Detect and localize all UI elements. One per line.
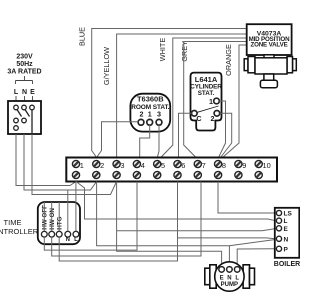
junction box terminal strip bbox=[66, 158, 277, 182]
junction terminal 10 bbox=[255, 160, 262, 167]
junction terminal 4 bbox=[133, 160, 140, 167]
wire room stat 1 to terminal 4 bbox=[140, 125, 150, 157]
svg-text:T6360B: T6360B bbox=[137, 95, 164, 104]
wire timer N to neutral bus bbox=[67, 190, 69, 202]
svg-text:230V: 230V bbox=[16, 54, 33, 61]
wire pump L to boiler P bbox=[237, 249, 275, 267]
wire timer HW OFF to terminal 4 bbox=[44, 182, 137, 251]
svg-text:ZONE VALVE: ZONE VALVE bbox=[250, 42, 287, 49]
wire earth bus to boiler E bbox=[117, 229, 276, 231]
svg-text:G/YELLOW: G/YELLOW bbox=[102, 47, 111, 85]
svg-text:5: 5 bbox=[161, 161, 165, 170]
svg-text:1: 1 bbox=[209, 97, 213, 106]
svg-text:PUMP: PUMP bbox=[221, 282, 238, 288]
supply rating label bbox=[7, 54, 41, 76]
svg-text:L: L bbox=[14, 89, 19, 96]
wire timer HW ON to terminal 7 bbox=[52, 182, 201, 257]
wire grey valve to terminal 7 bbox=[184, 42, 247, 158]
boiler terminal labels bbox=[284, 211, 293, 254]
wire terminal 8 to boiler LS bbox=[218, 182, 275, 214]
svg-text:LS: LS bbox=[284, 211, 293, 218]
zone valve label box V4073A bbox=[247, 24, 292, 55]
svg-text:TIME: TIME bbox=[4, 218, 22, 227]
wire cyl stat C to terminal 6 bbox=[179, 113, 192, 157]
svg-text:4: 4 bbox=[141, 161, 145, 170]
svg-text:N: N bbox=[22, 89, 27, 96]
boiler terminals LS L E N P bbox=[276, 210, 281, 251]
svg-text:7: 7 bbox=[202, 161, 206, 170]
wire orange valve to terminal 8 bbox=[223, 45, 247, 158]
svg-text:8: 8 bbox=[222, 161, 226, 170]
svg-text:E: E bbox=[30, 89, 35, 96]
junction terminal 9 bbox=[235, 160, 242, 167]
time controller terminals bbox=[41, 231, 78, 237]
svg-text:3: 3 bbox=[157, 110, 161, 119]
wire terminal 2 neutral to pump N bbox=[97, 182, 230, 267]
pump body and unions bbox=[205, 262, 255, 291]
time controller lead stubs bbox=[44, 202, 76, 231]
wire cyl stat 1 to terminal 8 bbox=[219, 101, 226, 158]
svg-text:N: N bbox=[66, 237, 70, 243]
time controller terminal labels bbox=[42, 205, 64, 230]
supply L N E labels bbox=[14, 89, 35, 96]
svg-text:E: E bbox=[220, 276, 224, 282]
svg-text:L: L bbox=[74, 237, 78, 243]
svg-text:BLUE: BLUE bbox=[78, 27, 87, 46]
supply isolator box bbox=[8, 101, 41, 134]
wire supply L to terminal 1 bbox=[16, 134, 76, 186]
boiler box bbox=[275, 208, 300, 258]
pump labels bbox=[220, 276, 240, 289]
svg-text:L641A: L641A bbox=[195, 75, 218, 84]
svg-text:N: N bbox=[227, 276, 231, 282]
junction terminal 8 bbox=[215, 160, 222, 167]
wire cyl stat 2 to terminal 8 bbox=[220, 113, 232, 157]
junction terminal 1 bbox=[72, 160, 79, 167]
time controller box bbox=[38, 202, 80, 244]
svg-text:ORANGE: ORANGE bbox=[224, 44, 233, 76]
cylinder stat L641A bbox=[191, 73, 222, 131]
svg-text:WHITE: WHITE bbox=[158, 38, 167, 62]
junction terminal 2 bbox=[93, 160, 100, 167]
svg-text:L: L bbox=[284, 218, 288, 225]
room stat T6360B bbox=[130, 94, 170, 132]
svg-text:50Hz: 50Hz bbox=[16, 61, 33, 68]
wire white valve to terminal 5 bbox=[161, 38, 247, 158]
svg-text:2: 2 bbox=[100, 161, 104, 170]
supply terminal ticks bbox=[16, 96, 33, 101]
svg-text:P: P bbox=[284, 246, 289, 253]
wire timer L to terminal 1 bbox=[75, 182, 77, 203]
wire supply N to terminal 2 bbox=[24, 134, 97, 190]
junction terminal 5 bbox=[154, 160, 161, 167]
svg-text:1: 1 bbox=[80, 161, 84, 170]
svg-text:10: 10 bbox=[263, 161, 271, 170]
pump terminals E N L bbox=[219, 267, 240, 273]
svg-text:HW ON: HW ON bbox=[49, 208, 56, 230]
svg-text:N: N bbox=[284, 236, 289, 243]
svg-text:9: 9 bbox=[242, 161, 246, 170]
svg-text:GREY: GREY bbox=[180, 41, 189, 62]
svg-text:HW OFF: HW OFF bbox=[42, 205, 49, 230]
svg-text:CONTROLLER: CONTROLLER bbox=[0, 227, 39, 236]
wire terminal 3 earth to pump E bbox=[117, 182, 222, 267]
wire blue valve to terminal 2 bbox=[92, 29, 247, 158]
wire neutral bus to boiler N bbox=[229, 240, 275, 246]
zone valve body bbox=[244, 55, 296, 88]
svg-text:2: 2 bbox=[140, 110, 144, 119]
wire supply E to terminal 3 bbox=[32, 134, 117, 195]
svg-text:1: 1 bbox=[148, 110, 152, 119]
wire g/yellow valve to terminal 3 bbox=[117, 34, 247, 158]
junction terminal 7 bbox=[194, 160, 201, 167]
svg-text:HTG: HTG bbox=[57, 216, 64, 229]
svg-text:L: L bbox=[235, 276, 239, 282]
time controller label bbox=[0, 218, 39, 236]
wire room stat feed from terminal 2 bbox=[97, 122, 139, 158]
svg-text:6: 6 bbox=[181, 161, 185, 170]
svg-text:3: 3 bbox=[120, 161, 124, 170]
svg-text:E: E bbox=[284, 226, 289, 233]
svg-text:BOILER: BOILER bbox=[274, 261, 300, 268]
wire terminal 1 live to boiler L bbox=[76, 182, 275, 221]
wire terminal 6 to boiler N bbox=[178, 237, 276, 240]
room stat terminals 2 1 3 bbox=[138, 119, 162, 125]
supply switch contacts bbox=[14, 105, 35, 134]
wire room stat 3 to terminal 5 bbox=[157, 125, 159, 157]
cylinder stat terminals and switch arm bbox=[192, 98, 220, 116]
zone valve V4073A labels bbox=[249, 31, 291, 49]
wire timer HTG to terminal 5 bbox=[59, 182, 177, 262]
svg-text:3A RATED: 3A RATED bbox=[7, 69, 41, 76]
junction terminal 3 bbox=[113, 160, 120, 167]
supply bracket bbox=[16, 76, 33, 84]
junction terminal 6 bbox=[174, 160, 181, 167]
